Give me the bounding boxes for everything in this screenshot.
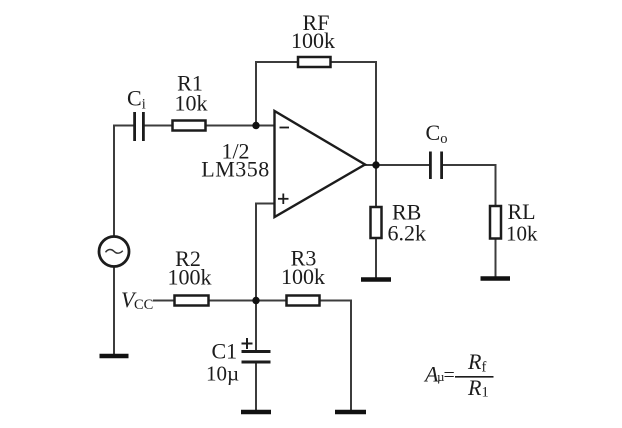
resistor RL [490,206,501,239]
capacitor Co [430,152,441,180]
ground for R3 [335,410,366,415]
svg-text:Rf: Rf [467,349,486,376]
svg-text:10k: 10k [506,222,538,246]
wire feedback right vertical [375,61,377,165]
svg-text:Aµ=: Aµ= [423,362,455,387]
wire Ci to R1 [144,125,173,127]
svg-text:100k: 100k [168,265,212,290]
svg-text:C1: C1 [212,339,238,364]
wire feedback top left [255,61,299,63]
resistor R1 [173,121,206,131]
node B bias junction [252,297,259,304]
svg-text:10µ: 10µ [206,362,239,386]
ground for RB [361,277,391,282]
wire feedback top right [330,61,377,63]
resistor RB [371,207,382,238]
wire bias node to R3 [256,300,287,302]
wire input to Ci [113,125,134,127]
formula fraction bar [455,376,494,378]
wire Vcc to R2 [153,300,175,302]
wire op-amp output to Co [364,164,430,166]
svg-text:10k: 10k [175,91,208,116]
resistor RF [298,57,331,67]
wire C1 bottom to ground [255,362,257,410]
svg-text:6.2k: 6.2k [388,221,427,246]
wire feedback left vertical [255,61,257,126]
svg-text:RL: RL [508,199,536,224]
node output junction [372,161,379,168]
ground for RL [481,276,511,281]
C1 polarity plus sign [242,338,253,349]
capacitor C1 electrolytic [242,352,271,363]
node A inverting input junction [252,122,259,129]
ground for source [100,354,129,359]
wire R1 to op-amp inverting input [205,125,275,127]
wire RL top vertical [495,164,497,207]
wire noninverting input down to bias node [255,203,257,302]
wire bias node down to C1 [255,301,257,351]
svg-text:R1: R1 [467,375,489,401]
svg-text:Co: Co [426,120,448,147]
op-amp inverting pin minus sign [280,127,290,129]
wire source bottom to ground [113,266,115,354]
wire input left vertical [113,126,115,237]
wire RB bottom to ground [375,238,377,279]
wire output node to RB [375,165,377,208]
wire op-amp noninverting input horizontal [256,203,274,205]
wire R2 to bias node [208,300,257,302]
wire R3 to right corner [319,300,351,302]
capacitor Ci [135,112,144,141]
source V1 AC signal source [99,237,129,267]
source sine symbol [106,249,123,253]
wire Co to RL corner [442,164,496,166]
op-amp noninverting pin plus sign [278,194,289,205]
resistor R3 [287,296,320,306]
ground for C1 [241,410,271,415]
wire RL bottom to ground [495,238,497,277]
resistor R2 [175,296,209,306]
svg-text:Ci: Ci [127,86,146,113]
op-amp U1 triangle [275,111,366,217]
wire R3 right vertical down to ground [350,300,352,411]
formula Au = Rf / R1 [423,349,489,401]
svg-text:CC: CC [134,297,153,313]
svg-text:LM358: LM358 [201,157,270,182]
svg-text:100k: 100k [281,264,325,289]
svg-text:100k: 100k [291,28,335,53]
